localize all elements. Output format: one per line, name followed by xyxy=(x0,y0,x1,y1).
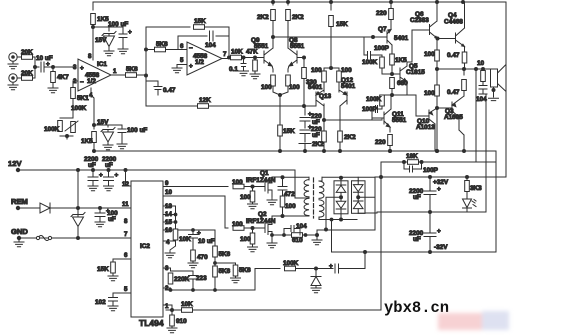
wire 12V rail xyxy=(18,169,295,171)
resistor 5K6 b xyxy=(213,266,218,277)
wire REM row xyxy=(18,207,131,209)
node REM x78 xyxy=(77,207,80,210)
svg-text:0.47: 0.47 xyxy=(447,89,460,96)
wire Q4 collector to rail xyxy=(464,2,466,28)
wire Q2 source row 104/610 xyxy=(272,234,317,236)
wire IC1 supply column xyxy=(92,2,94,10)
wire inv input riser xyxy=(177,36,179,50)
svg-text:100: 100 xyxy=(232,221,243,228)
wire bridge pos out xyxy=(322,176,375,178)
wire primary bottom row xyxy=(283,215,310,217)
wire Q8 base to fb column xyxy=(303,58,305,69)
resistor 1K5 VAS xyxy=(391,51,393,54)
svg-text:A1013: A1013 xyxy=(416,124,435,131)
svg-text:+: + xyxy=(437,186,441,193)
wire Q5 emitter join xyxy=(392,82,407,95)
resistor 5K6 a xyxy=(213,246,218,257)
svg-text:100P: 100P xyxy=(423,167,439,174)
wire primary top xyxy=(283,176,310,178)
svg-text:15K: 15K xyxy=(97,266,109,273)
potentiometer 100K xyxy=(60,118,73,136)
svg-text:472: 472 xyxy=(284,191,295,198)
wire output node row xyxy=(437,68,494,70)
node dot rail x391 xyxy=(390,1,393,4)
wire CT drop from +32V corner xyxy=(374,177,376,230)
node op1 out xyxy=(145,74,148,77)
transformer core xyxy=(313,178,315,218)
wire pin6 to 15K xyxy=(113,259,131,262)
svg-text:15K: 15K xyxy=(194,18,206,25)
ground speaker xyxy=(489,90,499,101)
rectifier bridge box2 xyxy=(352,181,366,214)
node +32V x383 xyxy=(380,176,383,179)
wire feedback top xyxy=(146,26,190,28)
watermark blob blue xyxy=(482,311,509,330)
svg-text:A1695: A1695 xyxy=(444,114,463,121)
svg-text:+: + xyxy=(115,172,119,179)
svg-text:20K: 20K xyxy=(21,70,33,77)
node fb diode xyxy=(315,267,318,270)
wire cap branch xyxy=(178,35,229,37)
capacitor 220uF lower xyxy=(300,130,310,142)
svg-text:100: 100 xyxy=(240,236,251,243)
wire bridge neg out xyxy=(358,212,365,214)
resistor 2K2 Q9 load xyxy=(272,2,274,5)
capacitor 104 zobel xyxy=(479,86,487,95)
capacitor 223 xyxy=(171,271,198,290)
svg-text:+: + xyxy=(329,263,333,270)
svg-text:2K2: 2K2 xyxy=(292,14,304,21)
svg-text:100K: 100K xyxy=(283,260,299,267)
svg-text:2K2: 2K2 xyxy=(257,14,269,21)
capacitor 100P lower xyxy=(372,106,382,121)
svg-text:610: 610 xyxy=(292,237,303,244)
node y37 x373 xyxy=(372,36,375,39)
svg-text:100 uF: 100 uF xyxy=(108,21,128,28)
svg-text:3K3: 3K3 xyxy=(470,185,482,192)
svg-text:5K6: 5K6 xyxy=(156,41,168,48)
resistor 10K fb xyxy=(182,308,193,313)
svg-text:Q7: Q7 xyxy=(378,26,387,33)
wire Q5 collector xyxy=(407,62,409,66)
resistor 100 Q12 base xyxy=(338,68,340,71)
svg-text:104: 104 xyxy=(296,223,307,230)
svg-text:C4468: C4468 xyxy=(444,19,463,26)
resistor 20K bottom xyxy=(22,76,33,81)
svg-text:104: 104 xyxy=(205,42,216,49)
resistor 2K2 Q13 xyxy=(323,120,325,131)
svg-text:uF: uF xyxy=(312,119,320,126)
capacitor 2200uF upper psu xyxy=(429,177,431,190)
wire GND row xyxy=(19,237,131,239)
resistor 910 xyxy=(171,310,173,315)
svg-text:8: 8 xyxy=(124,218,128,225)
svg-text:uF: uF xyxy=(413,194,421,201)
svg-text:1K5: 1K5 xyxy=(81,138,93,145)
capacitor 102 xyxy=(109,298,118,307)
wire x78 drop xyxy=(77,170,79,238)
resistor 2K2 Q12 xyxy=(338,131,343,142)
node out x463 xyxy=(463,68,466,71)
wire pin5 to 102 xyxy=(113,293,131,297)
wire feedback left vertical xyxy=(145,27,147,106)
wire output pin7 xyxy=(222,58,229,60)
svg-text:+: + xyxy=(437,228,441,235)
wire negative rail drop to -32V xyxy=(495,151,497,252)
node dot rail x273 xyxy=(272,1,275,4)
ground GND sym xyxy=(18,238,20,242)
svg-text:+: + xyxy=(197,230,201,237)
wire -32V drop xyxy=(331,220,333,253)
node dot rail x288 xyxy=(287,1,290,4)
svg-text:5551: 5551 xyxy=(290,43,305,50)
capacitor 0.47 hang xyxy=(146,81,162,95)
diode D1 xyxy=(336,181,346,202)
ground under J1 xyxy=(12,62,14,65)
svg-text:3: 3 xyxy=(73,64,77,71)
svg-text:910: 910 xyxy=(176,318,187,325)
fuse F1 xyxy=(38,236,50,241)
svg-text:0.1: 0.1 xyxy=(229,66,238,73)
resistor 100K VAS xyxy=(376,55,382,57)
svg-text:1/2: 1/2 xyxy=(195,59,204,66)
svg-text:6: 6 xyxy=(180,43,184,50)
resistor 5K6 in xyxy=(155,47,166,52)
resistor 100K lower VAS xyxy=(391,94,394,97)
wire tail column xyxy=(279,95,281,151)
capacitor 104 damp xyxy=(284,226,300,236)
resistor 15K feedback xyxy=(194,25,205,30)
svg-text:5401: 5401 xyxy=(394,35,409,42)
svg-text:470: 470 xyxy=(197,254,208,261)
capacitor 2200uF psu12 b xyxy=(107,169,110,172)
wire output feedback drop xyxy=(475,69,477,162)
svg-text:Q2: Q2 xyxy=(258,211,267,218)
capacitor 100uF top xyxy=(119,34,127,49)
transformer T1 primary xyxy=(308,177,310,180)
svg-text:10 uF: 10 uF xyxy=(36,55,53,62)
svg-text:104: 104 xyxy=(476,96,487,103)
resistor 680 xyxy=(390,78,395,89)
resistor 18K feedback xyxy=(389,150,392,153)
svg-text:C1815: C1815 xyxy=(406,69,425,76)
node fb mid xyxy=(145,48,148,51)
node input join xyxy=(34,66,37,69)
resistor 100 Q8 emitter xyxy=(288,66,289,72)
svg-text:220: 220 xyxy=(375,139,386,146)
wire J2 to 20K xyxy=(17,77,21,79)
resistor 100 Q2 pulldown xyxy=(252,228,254,233)
node Q13 emitter to drive xyxy=(323,119,326,122)
svg-text:15V: 15V xyxy=(97,119,109,126)
zener REM clamp xyxy=(71,213,85,239)
svg-text:100 uF: 100 uF xyxy=(127,127,147,134)
resistor 330 xyxy=(302,68,307,79)
wire VAS base row y37 xyxy=(273,36,383,38)
svg-text:C2383: C2383 xyxy=(410,17,429,24)
wire Q11 collector up xyxy=(390,95,392,109)
capacitor 220uF upper xyxy=(304,106,306,115)
wire Q6 collector to rail xyxy=(436,2,438,21)
diode D2 xyxy=(336,201,346,219)
svg-text:100: 100 xyxy=(424,90,435,97)
wire top positive rail xyxy=(93,1,506,3)
svg-text:2K2: 2K2 xyxy=(344,134,356,141)
resistor 100 upper out xyxy=(436,39,438,51)
svg-text:12V: 12V xyxy=(8,159,22,168)
ground under J2 xyxy=(12,83,14,86)
node supply split xyxy=(92,26,95,29)
node out x483 xyxy=(482,68,485,71)
node out x437 xyxy=(436,68,439,71)
wire bridge ac1 xyxy=(326,197,341,229)
svg-text:15V: 15V xyxy=(95,37,107,44)
resistor 1K5 lower xyxy=(93,125,95,129)
svg-text:100: 100 xyxy=(240,194,251,201)
svg-text:−: − xyxy=(80,79,84,86)
wire pin12 to rail xyxy=(126,170,132,186)
wire drive row y120 xyxy=(324,119,382,121)
svg-text:GND: GND xyxy=(11,227,28,236)
resistor 220 Q11 xyxy=(389,127,391,132)
zener D 15V top xyxy=(102,32,116,52)
svg-text:100K: 100K xyxy=(366,96,382,103)
svg-text:100: 100 xyxy=(261,84,272,91)
resistor 10K out xyxy=(231,55,242,60)
resistor 1K5 top xyxy=(91,14,96,25)
wire ct line to psu xyxy=(317,213,375,230)
svg-text:100P: 100P xyxy=(362,106,378,113)
svg-text:1/2: 1/2 xyxy=(87,78,96,85)
IC U2 TL494 box xyxy=(131,181,163,317)
svg-text:IC1: IC1 xyxy=(97,61,107,68)
svg-text:7: 7 xyxy=(223,51,227,58)
resistor 0.47 lower out xyxy=(463,69,465,75)
wire J1 to 20K xyxy=(17,56,21,58)
svg-text:1K5: 1K5 xyxy=(395,57,407,64)
resistor 100 snubber xyxy=(280,196,285,207)
svg-text:uF: uF xyxy=(105,162,113,169)
diode D3 xyxy=(353,181,363,201)
svg-text:5K1: 5K1 xyxy=(77,95,89,102)
wire 0V mid line y212 xyxy=(365,212,486,213)
svg-text:6: 6 xyxy=(124,252,128,259)
svg-text:10: 10 xyxy=(165,189,172,196)
svg-text:uF: uF xyxy=(312,132,320,139)
resistor 4K7 xyxy=(52,67,54,71)
svg-text:10K: 10K xyxy=(179,236,191,243)
svg-text:100K: 100K xyxy=(362,59,378,66)
svg-text:10 uF: 10 uF xyxy=(198,238,215,245)
resistor 100 Q1 pulldown xyxy=(252,187,254,192)
rectifier bridge box1 xyxy=(334,181,348,214)
svg-text:5401: 5401 xyxy=(341,83,356,90)
svg-text:+: + xyxy=(80,65,84,72)
resistor 100 Q13 base xyxy=(323,68,325,71)
wire LED return xyxy=(467,211,486,213)
resistor 470 xyxy=(191,250,196,261)
svg-text:12K: 12K xyxy=(199,97,211,104)
capacitor 10uF input xyxy=(41,62,44,72)
svg-text:5K6: 5K6 xyxy=(219,268,231,275)
svg-text:TL494: TL494 xyxy=(139,318,164,328)
svg-text:220: 220 xyxy=(376,10,387,17)
wire Q10 base drive xyxy=(392,95,424,116)
svg-text:8: 8 xyxy=(88,53,92,60)
wire 5K6 row xyxy=(146,49,154,51)
wire Q6 base stub xyxy=(409,30,412,62)
resistor 15K dt xyxy=(111,262,116,273)
diode fb clamp xyxy=(311,269,321,289)
transformer T1 secondary xyxy=(319,179,322,181)
svg-text:uF: uF xyxy=(88,162,96,169)
svg-text:4: 4 xyxy=(166,239,170,246)
resistor 10K ref xyxy=(173,229,178,240)
svg-text:100: 100 xyxy=(289,84,300,91)
svg-text:1: 1 xyxy=(113,68,117,75)
wire 15K mid split to 100/100 xyxy=(324,67,339,69)
svg-text:220K: 220K xyxy=(174,276,190,283)
svg-text:100: 100 xyxy=(232,179,243,186)
capacitor 10uF ss xyxy=(192,229,195,232)
node 4K7 top xyxy=(52,66,55,69)
svg-text:4K7: 4K7 xyxy=(57,74,69,81)
wire TL494 fb row y310 xyxy=(166,309,381,311)
capacitor 100uF lower xyxy=(118,129,126,144)
node Q1 drain xyxy=(281,176,284,179)
wire fb to -32V xyxy=(364,252,366,269)
svg-text:102: 102 xyxy=(95,299,106,306)
svg-text:5551: 5551 xyxy=(254,43,269,50)
node dot rail x437 xyxy=(436,1,439,4)
svg-text:+32V: +32V xyxy=(433,179,449,186)
resistor 610 xyxy=(292,233,303,238)
svg-text:−: − xyxy=(189,45,193,52)
capacitor 2200uF lower psu xyxy=(429,212,431,232)
svg-text:+: + xyxy=(128,29,132,36)
node rail x94 xyxy=(93,150,96,153)
svg-text:15K: 15K xyxy=(283,128,295,135)
wire bridge ac2 xyxy=(358,196,375,198)
wire ss to 5K6 col xyxy=(193,230,215,246)
wire err row y290 xyxy=(166,269,255,291)
resistor 0.47 upper out xyxy=(462,52,467,63)
input jack J1 top xyxy=(9,53,17,61)
node out x476 xyxy=(475,68,478,71)
resistor 100 Q9 emitter xyxy=(272,66,273,72)
ground under 4K7 xyxy=(52,83,54,89)
wire 12K row xyxy=(146,105,198,107)
svg-text:100: 100 xyxy=(424,51,435,58)
wire ct sense xyxy=(317,230,326,240)
LED power xyxy=(463,199,477,208)
resistor 15K tail xyxy=(278,125,283,136)
svg-text:223: 223 xyxy=(196,275,207,282)
svg-text:12: 12 xyxy=(122,181,129,188)
zener D 15V lower xyxy=(101,128,115,146)
capacitor 100P fb bypass xyxy=(404,162,422,172)
node pot bottom xyxy=(66,135,69,138)
wire +32V rail xyxy=(375,176,506,178)
svg-text:5K6: 5K6 xyxy=(126,66,138,73)
mosfet Q2 body xyxy=(265,216,272,243)
wire TL494 feedback vertical xyxy=(380,162,382,310)
capacitor 472 snubber xyxy=(278,177,287,196)
svg-text:5K6: 5K6 xyxy=(219,251,231,258)
wire to zener/cap xyxy=(93,27,123,34)
svg-text:100K: 100K xyxy=(44,126,60,133)
capacitor 100uF rem xyxy=(95,208,105,222)
wire 20K2 to node xyxy=(33,77,36,79)
capacitor 2200uF psu12 a xyxy=(92,169,95,172)
resistor 5K1 xyxy=(71,88,76,99)
svg-text:+: + xyxy=(99,172,103,179)
svg-text:11: 11 xyxy=(122,201,129,208)
node after 10K xyxy=(242,56,245,59)
svg-text:+: + xyxy=(189,63,193,70)
svg-text:18K: 18K xyxy=(406,153,418,160)
node +32V x430 xyxy=(429,176,432,179)
wire sec top to bridge xyxy=(321,177,323,179)
node GND x78 xyxy=(77,237,80,240)
wire -32V rail xyxy=(332,251,497,253)
resistor 220K xyxy=(168,273,173,284)
wire pin10 route xyxy=(163,196,228,228)
op-amp U1b 4558 1/2 xyxy=(187,42,222,75)
svg-text:0.47: 0.47 xyxy=(163,87,176,94)
svg-text:Q1: Q1 xyxy=(260,170,269,177)
svg-text:0.47: 0.47 xyxy=(447,52,460,59)
diode D4 xyxy=(353,201,363,213)
svg-text:9: 9 xyxy=(165,180,169,187)
node dot rail x331 xyxy=(330,1,333,4)
resistor 5K6 out xyxy=(126,73,137,78)
wire pin9 row xyxy=(163,186,228,188)
wire 5K1 down xyxy=(72,99,74,119)
svg-text:REM: REM xyxy=(11,197,28,206)
speaker LS xyxy=(483,68,492,70)
capacitor 100P VAS xyxy=(364,37,376,59)
wire pin1 output xyxy=(111,74,125,76)
wire pin2 stub xyxy=(73,81,78,87)
svg-text:100: 100 xyxy=(285,203,296,210)
watermark blob pink xyxy=(438,311,509,330)
wire zobel return drop xyxy=(485,94,487,212)
resistor 100 lower out xyxy=(435,85,440,96)
wire ref column xyxy=(175,206,177,229)
svg-text:5: 5 xyxy=(124,286,128,293)
svg-text:5551: 5551 xyxy=(392,117,407,124)
svg-text:100: 100 xyxy=(341,67,352,74)
wire pin5 ground stub xyxy=(177,65,187,69)
svg-text:680: 680 xyxy=(397,80,408,87)
wire cap to node2 xyxy=(44,66,76,68)
wire feedback line y162 xyxy=(381,161,496,163)
wire pin4 column xyxy=(91,88,94,125)
svg-text:5401: 5401 xyxy=(308,84,323,91)
wire Q6 emitter xyxy=(438,38,456,40)
input jack J2 bottom xyxy=(9,74,17,82)
wire to lower zener/cap xyxy=(94,125,122,129)
wire amp bottom negative rail y151 xyxy=(95,150,496,152)
resistor 100 Q2 gate xyxy=(233,226,244,231)
svg-text:20K: 20K xyxy=(21,49,33,56)
node fb x437 on y151 xyxy=(436,150,439,153)
svg-text:10K: 10K xyxy=(231,49,243,56)
capacitor 104 feedback xyxy=(210,31,214,41)
resistor 12K xyxy=(198,104,209,109)
svg-text:100K: 100K xyxy=(71,105,87,112)
